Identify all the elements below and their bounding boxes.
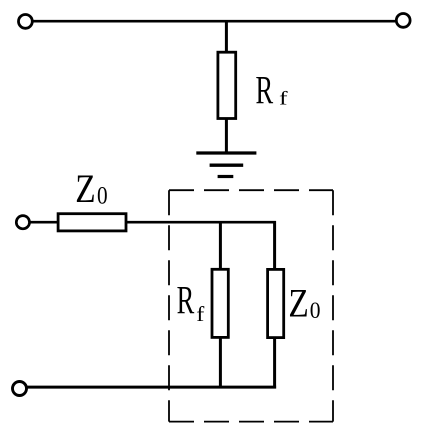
svg-text:0: 0 [97, 182, 108, 210]
svg-text:R: R [256, 70, 274, 114]
wire: series resistor Z0 to parallel network (node A) [127, 221, 276, 224]
svg-text:Z: Z [288, 281, 308, 325]
terminal T3 (middle-left port) [16, 216, 29, 229]
resistor Rf (top shunt resistor) [218, 52, 236, 118]
svg-text:Z: Z [75, 166, 95, 210]
svg-text:f: f [279, 87, 288, 108]
svg-text:R: R [177, 279, 195, 323]
terminal T1 (top-left port) [19, 15, 33, 29]
svg-text:f: f [196, 302, 205, 325]
wire: right branch bottom stem [273, 337, 276, 389]
dashed network boundary box [169, 190, 333, 421]
wire: stem from top wire down to resistor Rf [225, 21, 228, 53]
resistor Z0 (parallel, right) [268, 269, 284, 337]
ground symbol [196, 153, 256, 177]
svg-text:0: 0 [310, 297, 321, 323]
terminal T2 (top-right port) [396, 14, 410, 28]
wire: left branch top stem [219, 221, 222, 270]
wire: resistor Rf to ground [225, 118, 228, 154]
wire: right branch top stem [273, 221, 276, 270]
resistor Rf (parallel, left) [212, 269, 228, 337]
terminal T4 (bottom-left port) [13, 382, 27, 396]
resistor Z0 (series, horizontal) [58, 214, 126, 231]
wire: left branch bottom stem [219, 337, 222, 389]
wire: T3 to series resistor Z0 [29, 221, 59, 224]
wire: top horizontal from T1 to T2 [33, 20, 396, 23]
wire: bottom horizontal from T4 to right branch [27, 386, 276, 389]
